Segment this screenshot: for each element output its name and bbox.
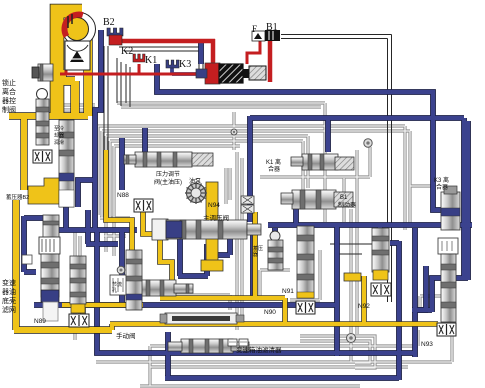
svg-text:B1: B1 xyxy=(266,22,278,33)
svg-text:润滑: 润滑 xyxy=(54,139,64,146)
svg-text:锁止: 锁止 xyxy=(2,78,16,87)
svg-text:N88: N88 xyxy=(117,192,129,199)
svg-text:器控: 器控 xyxy=(2,96,16,105)
svg-text:至冷: 至冷 xyxy=(54,125,64,132)
svg-text:蓄压器B2: 蓄压器B2 xyxy=(6,193,29,201)
svg-text:离合: 离合 xyxy=(2,87,16,96)
svg-text:N94: N94 xyxy=(208,202,220,209)
svg-text:K1: K1 xyxy=(145,55,157,66)
svg-text:K3: K3 xyxy=(179,59,191,70)
svg-text:N92: N92 xyxy=(358,303,370,310)
svg-text:B2: B2 xyxy=(103,17,115,28)
svg-text:却器: 却器 xyxy=(54,132,64,139)
svg-text:孔: 孔 xyxy=(112,287,117,294)
svg-text:合器: 合器 xyxy=(436,183,448,191)
svg-text:N90: N90 xyxy=(264,309,276,316)
svg-text:K2: K2 xyxy=(121,46,133,57)
svg-text:K1 离: K1 离 xyxy=(266,158,281,166)
svg-text:滤网: 滤网 xyxy=(2,305,16,314)
svg-text:变速: 变速 xyxy=(2,278,16,287)
svg-text:压力调节: 压力调节 xyxy=(156,170,180,178)
svg-text:B1: B1 xyxy=(340,195,348,201)
svg-text:N93: N93 xyxy=(421,341,433,348)
svg-text:制动器: 制动器 xyxy=(338,201,356,209)
svg-text:制阀: 制阀 xyxy=(2,105,16,114)
svg-text:蓄压: 蓄压 xyxy=(253,245,263,252)
svg-text:F: F xyxy=(252,24,257,34)
svg-text:油泵: 油泵 xyxy=(189,177,201,185)
svg-text:节流: 节流 xyxy=(112,281,122,288)
svg-text:N89: N89 xyxy=(34,318,46,325)
svg-text:器: 器 xyxy=(253,252,258,258)
svg-text:N91: N91 xyxy=(282,288,294,295)
svg-text:主调压阀: 主调压阀 xyxy=(203,213,229,222)
svg-text:K3 离: K3 离 xyxy=(434,176,449,184)
svg-text:器油: 器油 xyxy=(2,287,16,296)
svg-text:阀(主油压): 阀(主油压) xyxy=(154,178,182,186)
svg-text:合器: 合器 xyxy=(268,165,280,173)
svg-text:手动阀: 手动阀 xyxy=(116,331,136,340)
svg-text:变速箱油滤清器: 变速箱油滤清器 xyxy=(236,345,282,354)
svg-text:底壳: 底壳 xyxy=(2,296,16,305)
